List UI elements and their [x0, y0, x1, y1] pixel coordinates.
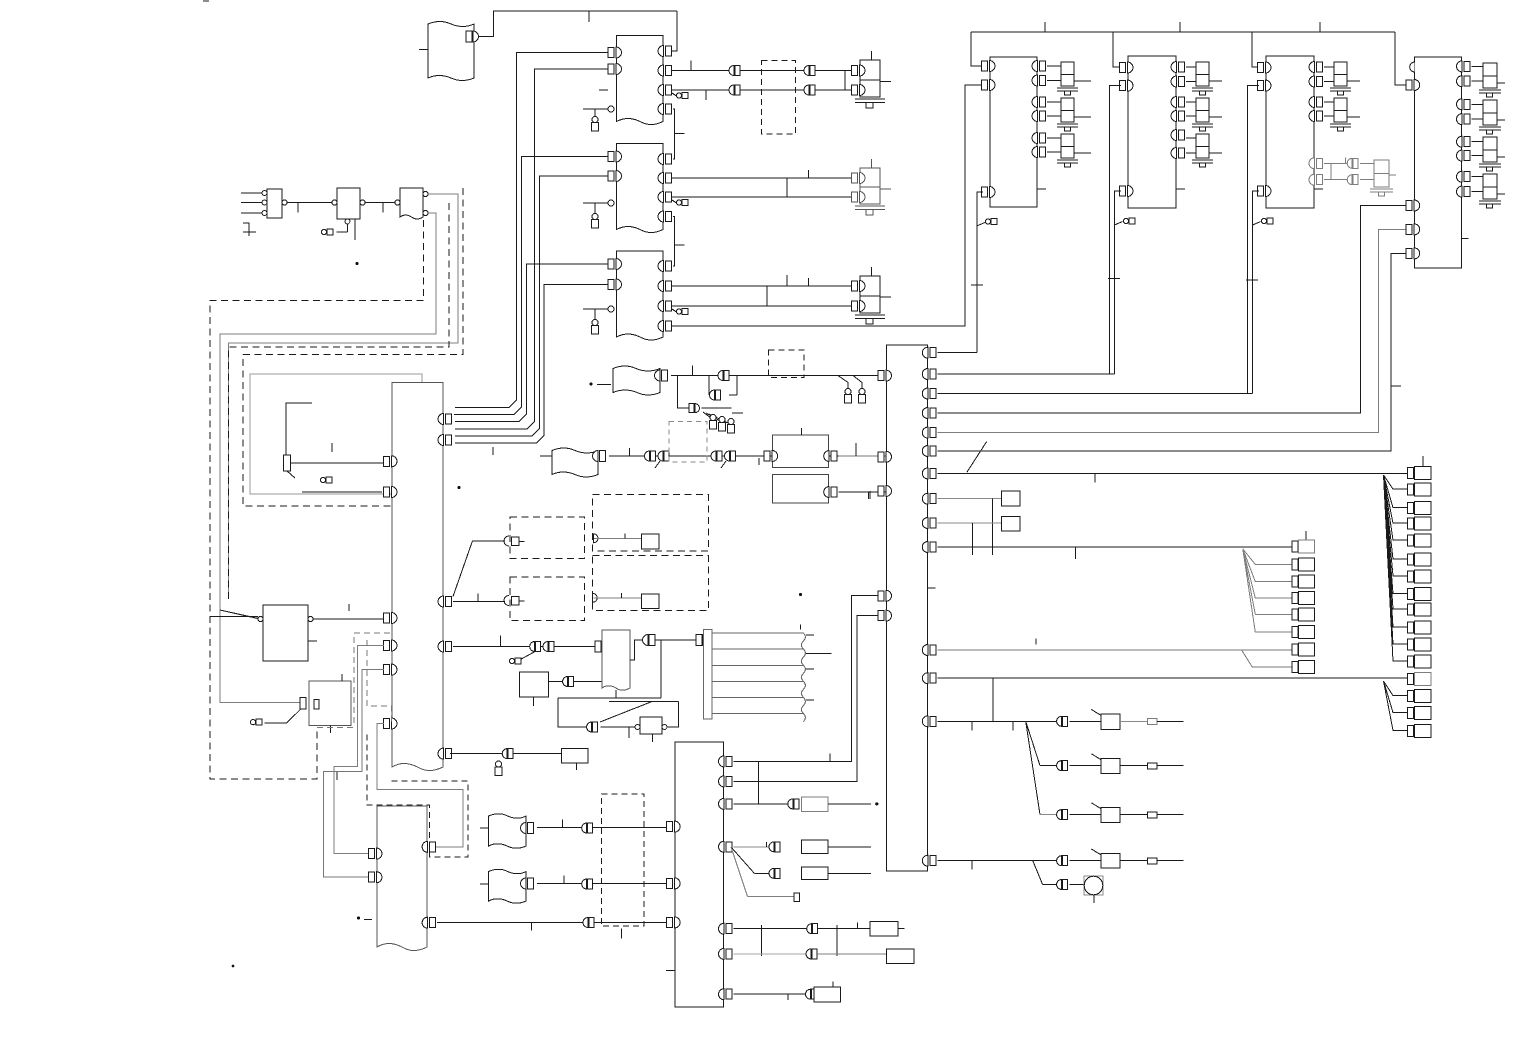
H3 left stub: [540, 455, 552, 457]
motor comp1: [852, 51, 892, 108]
relay box row766: [1101, 759, 1120, 774]
wire after: [1120, 765, 1147, 767]
grey wires to heater comp: [1324, 157, 1396, 196]
node circle B1 ground: [583, 108, 608, 110]
junction vertical: [757, 761, 759, 804]
pin JB R7: [922, 468, 936, 479]
wire after: [828, 846, 871, 848]
G1 right pin: [824, 451, 838, 462]
wire B2R2 to comp2: [671, 177, 854, 179]
tick: [477, 593, 479, 601]
ground symbol: [243, 223, 256, 236]
wire after: [828, 803, 871, 805]
tick: [971, 861, 973, 870]
pigtail F: [250, 719, 262, 725]
pin box3 L3: [1258, 186, 1272, 197]
pin B2 L2: [608, 171, 622, 182]
C2 bottom pins: [345, 219, 350, 224]
D6 inner box: [641, 594, 659, 608]
tick bus2: [1179, 22, 1181, 32]
wire BB R7 row: [734, 993, 806, 995]
C1 input circles: [262, 191, 267, 196]
tick: [336, 772, 338, 780]
conn H3a: [645, 451, 656, 461]
row 766 wire: [1040, 765, 1057, 767]
pin ECU R3: [438, 596, 452, 607]
shield wire C3b (grey): [220, 213, 436, 619]
pin box4 R3: [1457, 99, 1471, 110]
terminal rect: [794, 893, 800, 902]
bundle wire 2 from B1: [455, 69, 608, 429]
pin box1 R1: [1032, 61, 1046, 72]
tick: [562, 820, 564, 828]
dashed box DB2: [769, 350, 805, 377]
box BBR4: [802, 840, 828, 854]
horn circle: [1084, 876, 1103, 895]
pin box4 R6: [1457, 150, 1471, 161]
wire B1R2 to comp1: [671, 70, 854, 72]
wire JB R6 long to box4: [937, 253, 1407, 451]
C1 input leads: [241, 193, 263, 213]
wire: [816, 953, 887, 955]
pin B1 R4: [658, 104, 672, 115]
tick: [297, 203, 299, 213]
junction node B1 right: [671, 11, 677, 51]
relay box row861: [1101, 854, 1120, 868]
tick: [675, 244, 685, 246]
crossing verts: [767, 275, 787, 306]
right column stub: [1422, 456, 1424, 468]
wire C1-C2: [287, 202, 334, 204]
wire BB R2 to JB L5: [734, 616, 880, 782]
pin H5: [521, 878, 527, 889]
wire B2-B3 link: [673, 217, 675, 267]
wire H5 to BB: [537, 883, 668, 885]
glow comp2a: [1186, 62, 1222, 95]
dashed sheath hook1: [210, 220, 424, 779]
glow comp4d: [1472, 174, 1506, 208]
wire ECU R4 to R1: [453, 646, 595, 648]
left cluster fan: [1243, 549, 1292, 632]
pin BB R2: [719, 776, 733, 787]
tick: [624, 533, 626, 538]
pin JB R8: [922, 493, 936, 504]
box BBR5: [870, 922, 898, 937]
terminal rect row766: [1148, 763, 1158, 769]
dashed box DB1: [762, 61, 796, 134]
pin B3 R2: [658, 281, 672, 292]
bus3 drop to box3: [1252, 32, 1260, 67]
pigtail: [320, 477, 332, 483]
relay box row721: [1101, 714, 1120, 730]
G1 top stub: [800, 428, 802, 435]
pin B3 R4: [658, 321, 672, 332]
pin box4 L1 (D only): [1410, 62, 1415, 72]
pin BB R4: [719, 841, 733, 852]
fuse B3: [592, 320, 599, 335]
pin BL L2: [369, 872, 383, 883]
vert sq1: [991, 499, 993, 555]
bus3 top: [1252, 31, 1395, 33]
wire B1R3 to comp1: [671, 89, 854, 91]
box4 body: [1415, 57, 1462, 268]
pin ECU L1: [384, 456, 398, 467]
wire after: [828, 872, 871, 874]
D5 glyph pin: [594, 534, 599, 543]
loop right side: [663, 702, 679, 728]
pin JB L5: [878, 610, 892, 621]
wire B2R3 to comp2: [671, 196, 854, 198]
JB notch: [927, 587, 935, 589]
pin BL L1: [369, 848, 383, 859]
left cluster boxes: [1292, 540, 1314, 673]
pin BL R2: [422, 917, 436, 928]
conn w2b: [804, 85, 815, 95]
pin BB R5: [719, 923, 733, 934]
wire ECU R3 to D7: [453, 601, 505, 603]
pin B1 R2: [658, 65, 672, 76]
pigtail: [1253, 222, 1261, 226]
glow comp3a: [1324, 62, 1360, 95]
sq2: [1001, 517, 1020, 531]
conn row861: [1057, 856, 1068, 866]
F bottom stub: [330, 725, 332, 733]
pin ECU L3: [384, 613, 398, 624]
dashed box D3 (grey): [669, 422, 707, 463]
pin BB R7: [719, 989, 733, 1000]
conn BBR4: [769, 842, 780, 852]
relay R1 (wavy bottom): [602, 630, 630, 690]
box3 body: [1266, 56, 1314, 208]
tick bundle: [492, 447, 494, 455]
pin BB R6: [719, 948, 733, 959]
switch bracket: [286, 403, 312, 455]
motor comp2: [852, 159, 892, 215]
dashed sheath hook3: [243, 188, 463, 506]
pin ECU L5: [384, 664, 398, 675]
tick: [869, 491, 871, 499]
tick bus1: [1044, 22, 1046, 32]
tick: [621, 593, 623, 598]
fan J1: [1026, 721, 1040, 814]
C1 output circle: [282, 200, 287, 205]
wire BB R5 row: [734, 928, 807, 930]
box4 notch: [1462, 238, 1469, 240]
dashed box D4: [510, 517, 585, 559]
junction vert: [844, 71, 846, 91]
bundle wire 1 from B1: [455, 53, 608, 408]
pin JB R9: [922, 518, 936, 529]
shield wire C3a (grey): [229, 194, 458, 599]
D7 glyph: [504, 596, 509, 606]
glow comp4c: [1472, 137, 1506, 171]
glow comp4b: [1472, 100, 1506, 134]
pin BB R3: [719, 798, 733, 809]
pigtail fuse a: [838, 376, 848, 390]
tick: [1074, 547, 1076, 559]
conn BBR3: [788, 799, 799, 809]
D5 wire: [594, 537, 641, 539]
relay C2: [337, 188, 360, 219]
pin ECU L2: [384, 487, 398, 498]
pin box2 R2: [1171, 76, 1185, 87]
pin R1 left: [595, 641, 601, 652]
pin BB L2: [667, 878, 681, 889]
grey wire ECU L6 hook to BL right pin: [377, 724, 463, 848]
D8 stub: [620, 929, 622, 939]
wire: [1069, 720, 1101, 722]
wire after: [1120, 814, 1147, 816]
wire JB R12 bus: [937, 677, 1408, 679]
wire BB R6 row (grey): [734, 953, 807, 955]
pin H4: [521, 823, 527, 834]
terminal rect row861: [1148, 858, 1158, 864]
wire JB R5 long grey to box4: [937, 229, 1407, 432]
bundle wire 3 from B2: [454, 157, 608, 415]
pin ECU L6: [384, 718, 398, 729]
D5 inner box: [641, 534, 659, 549]
pin box3 R2: [1309, 76, 1323, 87]
wire box2 L2 down: [1110, 86, 1121, 374]
conn loop: [587, 722, 598, 732]
pin box1 L2: [982, 80, 996, 91]
tick: [692, 366, 694, 376]
switch contact rect: [284, 455, 291, 471]
bottom connector box BB: [675, 742, 723, 1007]
pin JB R6: [922, 446, 936, 457]
wire H2 to JB (y375.5): [671, 375, 882, 377]
tick: [856, 923, 858, 929]
pin B3 R3: [658, 301, 672, 312]
wire JB R8 grey: [937, 498, 1001, 500]
bus2 top: [1113, 31, 1252, 33]
fuse B2: [592, 214, 599, 229]
node circle B3 ground: [583, 308, 608, 310]
tick: [732, 412, 743, 414]
conn tail a: [655, 461, 660, 468]
pin JB L4: [878, 590, 892, 601]
wire C2-C3: [365, 202, 396, 204]
wire G1 to JB: [839, 455, 887, 457]
stub: [898, 927, 905, 929]
pin box1 R4: [1032, 111, 1046, 122]
pin BL R1: [422, 841, 436, 852]
tick: [331, 443, 333, 452]
tick: [787, 994, 789, 1000]
tick: [705, 90, 707, 100]
dashed sheath right of F: [367, 640, 392, 723]
pin box1 R2: [1032, 75, 1046, 86]
wire E to ECU: [313, 618, 384, 620]
conn H4: [582, 823, 593, 833]
wire JB R4 long to box4: [937, 206, 1407, 414]
H2 left stub: [597, 384, 611, 386]
wire G2 to JB: [839, 491, 887, 493]
box BBR6: [887, 949, 914, 963]
pin box2 R3: [1171, 97, 1185, 108]
wire JB R10 bus to left cluster: [937, 546, 1292, 548]
wire stub into A: [419, 49, 428, 51]
loop drop from conn: [660, 640, 662, 698]
pin JB R3: [922, 388, 936, 399]
H5 left stub: [480, 883, 489, 885]
pin B2 L1: [608, 151, 622, 162]
box2 body: [1128, 56, 1176, 208]
H4 left stub: [480, 827, 489, 829]
wire B1-B2 link: [673, 109, 675, 159]
horn outer: [1084, 876, 1103, 895]
conn w1a: [729, 66, 740, 76]
tick: [382, 203, 384, 213]
inverter small box: [640, 717, 662, 734]
stub up: [832, 982, 834, 988]
conn w2a: [729, 85, 740, 95]
bundle wire 4 from B2: [455, 176, 608, 436]
pin box4 R4: [1457, 114, 1471, 125]
pin box1 L3: [982, 187, 996, 198]
parallel conn loop: [709, 376, 737, 396]
grey wire ECU L4 to BL pin1: [334, 646, 384, 854]
pin JB R1: [922, 347, 936, 358]
conn BBR7: [806, 989, 817, 999]
wire: [1069, 884, 1083, 886]
pin JB R14: [922, 855, 936, 866]
pin box4 L5: [1406, 248, 1420, 259]
harness H2 (wavy): [613, 366, 660, 395]
tick: [808, 170, 810, 178]
wire BB R1 to JB L4: [734, 596, 880, 762]
branch down from H2 wire: [678, 376, 689, 409]
conn BBR4b: [769, 868, 780, 878]
pin JB L3: [878, 486, 892, 497]
branch to row8: [1242, 650, 1292, 667]
box G2: [773, 474, 829, 503]
box1 body: [990, 57, 1037, 207]
conn BBR5: [807, 924, 818, 934]
box3 notch: [1314, 188, 1323, 190]
fusebox strip (radiator): [704, 630, 806, 722]
tick top-left margin: [203, 0, 209, 2]
pin ECU L4: [384, 640, 398, 651]
pin B2 R3: [658, 192, 672, 203]
pin B3 L2: [608, 279, 622, 290]
conn row885: [1057, 880, 1068, 890]
pin box2 R5: [1171, 130, 1185, 141]
relay C3 (wavy bottom): [400, 188, 423, 219]
crossing ticks: [761, 925, 837, 956]
bus1 top: [971, 31, 1113, 33]
pin JB L2: [878, 451, 892, 462]
box BBR4b: [802, 867, 828, 880]
harness H3 (wavy): [552, 448, 598, 477]
glow comp2b: [1186, 98, 1222, 131]
pin box3 R5 grey: [1309, 158, 1323, 169]
box F: [309, 681, 351, 725]
wire BB R4 row (grey lead): [734, 846, 775, 848]
R3 stub: [575, 763, 577, 770]
box BBR3 (grey): [802, 797, 828, 811]
wire box2 L3 to JB R2: [1115, 191, 1122, 374]
wire branch right: [702, 407, 732, 409]
pigtail B3R3: [672, 309, 678, 313]
pigtail: [1115, 222, 1123, 226]
wire JB R1 (to box1 pin3 vert): [937, 352, 977, 354]
conn tail: [520, 651, 537, 660]
pin ECU R1: [438, 414, 452, 425]
F top stub: [341, 674, 343, 681]
relay box E: [263, 605, 308, 661]
conn row721: [1057, 716, 1068, 726]
R2 bottom stub: [533, 697, 535, 706]
pin B2 R1: [658, 154, 672, 165]
wire A to B1 top: [479, 11, 677, 37]
pin JB L1: [878, 370, 892, 381]
pin box3 R3: [1309, 97, 1323, 108]
fuse below conn: [495, 761, 502, 776]
wire after: [1120, 860, 1147, 862]
pigtail fuse b: [853, 376, 862, 390]
tick: [1108, 278, 1120, 280]
wire JB R11 (grey): [937, 649, 1292, 651]
ECU central box (wavy bottom): [392, 383, 443, 771]
ticks: [972, 721, 1013, 730]
wire JB R7 bus to right column: [937, 472, 1408, 474]
row 815 wire (grey lead): [1040, 814, 1057, 816]
pin box2 R1: [1171, 62, 1185, 73]
harness H5 (wavy): [489, 869, 526, 903]
conn tail b: [721, 461, 726, 468]
switch arm: [1091, 803, 1101, 809]
pigtail R1: [509, 658, 521, 664]
tick: [758, 458, 760, 465]
conn BLR2: [583, 918, 594, 928]
pin box3 L2: [1258, 80, 1272, 91]
box BBR7: [814, 987, 841, 1002]
tick on wire A: [588, 11, 590, 22]
fan J2: [1033, 861, 1043, 885]
right column fan2: [1384, 681, 1408, 730]
tick: [808, 278, 810, 286]
tick: [765, 842, 767, 847]
wire ECU R5 to R3: [450, 753, 562, 755]
pin B2 R4: [658, 211, 672, 222]
pin H2: [655, 370, 661, 381]
pin box1 R3: [1032, 97, 1046, 108]
pin box4 L4: [1406, 224, 1420, 235]
tick: [690, 61, 692, 71]
glow comp1b: [1047, 98, 1091, 131]
switch wire to ECU: [291, 462, 384, 464]
tick BB left: [666, 969, 675, 971]
conn branch: [689, 404, 694, 413]
tick: [675, 133, 685, 135]
pin JB R13: [922, 716, 936, 727]
tick: [867, 492, 869, 499]
dashed box D5: [593, 494, 709, 551]
fuse cluster b: [719, 417, 726, 432]
pin B1 L2: [608, 64, 622, 75]
wire after (grey lead): [1120, 720, 1147, 722]
node circle B2 ground: [583, 202, 608, 204]
D4 glyph: [504, 536, 509, 546]
fuse cluster c: [728, 419, 735, 434]
row 885 wire: [1043, 884, 1057, 886]
fuse B1: [592, 117, 599, 132]
connector pin A right: [466, 31, 472, 42]
battery box BL (wavy bottom): [377, 806, 427, 951]
wire ECU R3 diag to D4: [453, 541, 505, 596]
left cluster stub: [1305, 531, 1307, 541]
